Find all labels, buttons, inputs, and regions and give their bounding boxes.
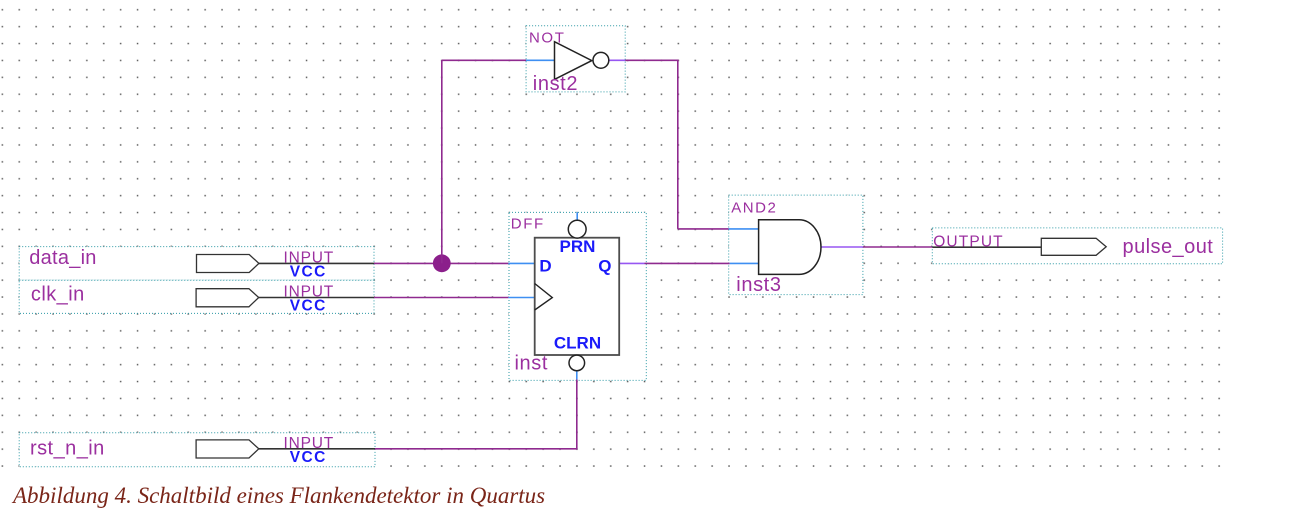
svg-text:OUTPUT: OUTPUT [933, 234, 1004, 251]
wire rst_n black segment [259, 448, 375, 450]
svg-text:VCC: VCC [290, 449, 327, 466]
svg-text:inst2: inst2 [533, 73, 578, 95]
wire black OUTPUT symbol lead [932, 246, 1041, 248]
svg-text:pulse_out: pulse_out [1123, 236, 1214, 258]
svg-text:data_in: data_in [29, 247, 96, 269]
wire data_in purple segment to DFF [374, 262, 508, 264]
selection box data_in [19, 247, 374, 281]
NOT gate bubble [593, 52, 609, 68]
wire AND output violet stub [820, 246, 863, 248]
svg-text:inst: inst [515, 353, 549, 375]
wire rst_n purple segment [375, 448, 577, 450]
DFF clock triangle [535, 284, 553, 311]
selection box OUTPUT pulse_out [932, 228, 1222, 264]
selection box DFF inst [509, 212, 646, 380]
wire blue pin stub into NOT input [526, 59, 554, 61]
wire purple AND output to OUTPUT box [863, 246, 932, 248]
svg-text:rst_n_in: rst_n_in [30, 437, 105, 459]
DFF PRN bubble [568, 220, 586, 238]
wire clk_in purple segment [374, 297, 508, 299]
wire DFF Q violet output stub [619, 262, 645, 264]
wire vertical down to AND input [677, 60, 679, 229]
svg-text:NOT: NOT [529, 30, 565, 47]
wire blue stub above PRN bubble [576, 212, 578, 220]
wire violet NOT output stub [609, 59, 625, 61]
wire horizontal to NOT box [442, 59, 526, 61]
wire purple NOT output to corner [625, 59, 678, 61]
wire horizontal to AND box [678, 228, 729, 230]
wire rst_n vertical up to DFF CLRN [576, 379, 578, 449]
figure caption [13, 484, 545, 507]
svg-text:DFF: DFF [511, 216, 545, 233]
DFF body rectangle inst [535, 238, 620, 355]
output port symbol pulse_out [1041, 238, 1106, 255]
selection box AND2 inst3 [729, 195, 863, 295]
selection box NOT inst2 [526, 26, 625, 92]
svg-text:PRN: PRN [560, 237, 596, 256]
wire clk_in black segment [259, 297, 374, 299]
DFF CLRN bubble [569, 355, 585, 371]
svg-text:VCC: VCC [290, 298, 327, 315]
wire blue stub below CLRN bubble [576, 371, 578, 380]
selection box rst_n_in [19, 433, 375, 467]
svg-text:D: D [539, 256, 551, 275]
wire clk blue pin stub into DFF clock [508, 297, 534, 299]
wire data_in blue pin stub into DFF D [508, 262, 534, 264]
input port symbol data_in [197, 255, 259, 273]
selection box clk_in [19, 280, 374, 313]
wire purple Q to AND box [645, 262, 730, 264]
svg-text:clk_in: clk_in [31, 284, 85, 306]
svg-text:AND2: AND2 [731, 199, 777, 216]
svg-text:Q: Q [598, 257, 611, 276]
AND2 gate body inst3 [759, 220, 821, 275]
NOT gate triangle U inst2 [555, 42, 592, 80]
svg-text:VCC: VCC [290, 264, 327, 281]
wire data_in black segment [259, 262, 374, 264]
svg-text:inst3: inst3 [736, 274, 781, 296]
wire vertical from junction up to NOT input [441, 60, 443, 263]
wire blue pin stub AND input bottom [730, 262, 759, 264]
input port symbol clk_in [196, 289, 259, 307]
node junction dot on data_in net [433, 254, 451, 272]
input port symbol rst_n_in [196, 440, 259, 458]
wire blue pin stub AND input top [729, 228, 759, 230]
svg-text:CLRN: CLRN [554, 333, 601, 352]
